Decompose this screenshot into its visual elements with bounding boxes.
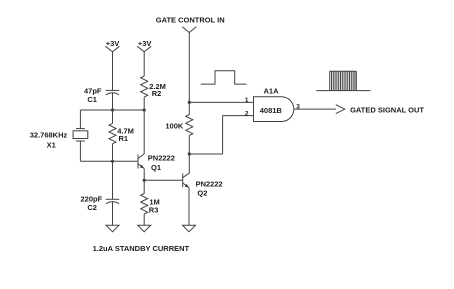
wire input2 branch vertical	[222, 116, 224, 154]
svg-text:1.2uA STANDBY CURRENT: 1.2uA STANDBY CURRENT	[93, 244, 190, 253]
junction gate input 1	[188, 101, 191, 104]
svg-text:GATE CONTROL IN: GATE CONTROL IN	[156, 15, 225, 24]
wire 100K to node4	[188, 135, 190, 154]
svg-text:Q2: Q2	[197, 188, 207, 197]
crystal X1	[73, 129, 88, 141]
resistor 100K	[186, 115, 193, 136]
wire gate input 2	[223, 115, 254, 117]
junction node2	[111, 160, 114, 163]
waveform pulse (gate control)	[201, 71, 247, 84]
wire R1 to node2	[112, 144, 114, 162]
svg-text:X1: X1	[47, 140, 56, 149]
wire to 100K	[188, 102, 190, 114]
svg-text:PN2222: PN2222	[196, 180, 223, 189]
wire node4 to Q2 collector	[188, 154, 190, 173]
capacitor C1	[106, 90, 120, 95]
wire crystal to node2	[79, 141, 81, 161]
resistor R3	[141, 194, 148, 214]
junction node1-A	[111, 108, 114, 111]
svg-text:2: 2	[245, 110, 249, 117]
wire node3 to R3	[143, 180, 145, 193]
svg-text:+3V: +3V	[106, 39, 120, 48]
wire gate output	[294, 108, 336, 110]
svg-text:R1: R1	[119, 134, 129, 143]
svg-text:A1A: A1A	[263, 87, 279, 96]
svg-text:C1: C1	[87, 95, 97, 104]
transistor Q2	[183, 173, 190, 187]
ground (below Q2)	[183, 225, 196, 232]
svg-text:+3V: +3V	[138, 39, 152, 48]
wire node1 to R1	[112, 110, 114, 123]
power +3V (left)	[106, 46, 120, 52]
wire R3 to ground	[143, 214, 145, 225]
wire gate control input vertical	[188, 33, 190, 103]
wire node2 horizontal (to Q1 base)	[80, 160, 138, 162]
power +3V (right)	[137, 46, 151, 52]
wire R2 to node1	[143, 97, 145, 110]
transistor Q1	[138, 154, 144, 169]
ground (below R3)	[138, 225, 151, 232]
svg-text:PN2222: PN2222	[148, 154, 175, 163]
output arrow	[336, 105, 345, 114]
svg-text:R2: R2	[152, 89, 162, 98]
wire Q1 emitter to node3	[143, 168, 145, 180]
capacitor C2	[106, 199, 120, 204]
junction node4	[188, 152, 191, 155]
wire node1 to crystal	[79, 110, 81, 129]
junction node3	[143, 179, 146, 182]
svg-text:32.768KHz: 32.768KHz	[30, 131, 68, 140]
waveform burst (gated output)	[316, 71, 370, 90]
wire +3V left to C1	[112, 52, 114, 91]
svg-text:Q1: Q1	[151, 163, 161, 172]
ground (below C2)	[106, 225, 119, 232]
svg-text:4081B: 4081B	[260, 106, 283, 115]
junction node1-B	[143, 108, 146, 111]
wire gate input 1	[189, 101, 253, 103]
and-gate A1A 4081B	[254, 97, 294, 122]
wire Q2 emitter to ground	[188, 188, 190, 226]
wire node3 horizontal (to Q2 base)	[144, 179, 183, 181]
wire node1 horizontal	[80, 109, 144, 111]
wire +3V right to R2	[143, 52, 145, 76]
input terminal GATE CONTROL IN	[182, 27, 196, 33]
svg-text:GATED SIGNAL OUT: GATED SIGNAL OUT	[350, 106, 424, 115]
svg-text:R3: R3	[149, 205, 159, 214]
wire Q1 collector to node1	[143, 110, 145, 154]
resistor R2	[141, 76, 148, 97]
wire node2 to C2	[112, 161, 114, 199]
svg-text:100K: 100K	[165, 122, 184, 131]
wire node4 horizontal	[189, 153, 222, 155]
svg-text:C2: C2	[87, 203, 97, 212]
resistor R1	[109, 123, 116, 143]
wire C2 to ground	[112, 202, 114, 225]
wire C1 to node1	[112, 93, 114, 110]
svg-text:1: 1	[245, 97, 249, 104]
